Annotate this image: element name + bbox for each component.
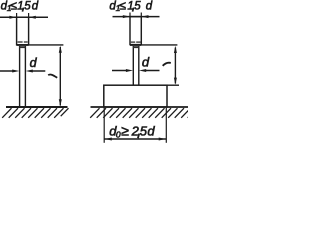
boss block (right) xyxy=(104,85,167,107)
label d0>=2,5d xyxy=(109,123,155,140)
label l (left) xyxy=(48,74,57,77)
hatching (left) xyxy=(2,108,68,118)
shaft top dark band (left) xyxy=(19,46,26,48)
d0 dimension line xyxy=(104,138,166,140)
dimension l (right) xyxy=(174,48,176,84)
shaft top dark band (right) xyxy=(133,46,139,48)
label d1<=1,5d (left) xyxy=(1,0,39,13)
extension tick left (right fig) xyxy=(129,13,131,18)
head inner dashes (left) xyxy=(18,41,23,43)
dimension line d1 (left) xyxy=(0,16,48,18)
svg-text:d: d xyxy=(147,124,155,139)
arrowhead right-pointing at left tick xyxy=(9,16,16,19)
svg-text:d: d xyxy=(30,56,38,70)
svg-text:≤: ≤ xyxy=(10,0,17,13)
stud head (left) xyxy=(17,17,29,45)
hatching (right) xyxy=(90,108,197,118)
d0 extension tick right xyxy=(165,108,167,143)
d0 extension tick left xyxy=(103,108,105,143)
shaft (left) xyxy=(19,46,21,107)
arrowhead left-pointing at right tick xyxy=(29,16,36,19)
svg-text:≥: ≥ xyxy=(121,123,129,139)
svg-text:d: d xyxy=(32,0,39,12)
head bottom thick edge (right) xyxy=(130,44,141,46)
head inner dashes (right) xyxy=(131,41,135,43)
extension tick right (right fig) xyxy=(140,13,142,18)
svg-text:d: d xyxy=(146,0,153,12)
dimension l (left) xyxy=(59,47,61,106)
svg-text:≤: ≤ xyxy=(119,0,126,13)
dimension line d1 (right) xyxy=(113,16,160,18)
dimension d (left) xyxy=(0,70,14,72)
dimension d (right) xyxy=(112,70,127,72)
label d1<=1,5d (right) xyxy=(109,0,152,13)
extension tick left xyxy=(16,13,18,18)
head bottom thick edge (left) xyxy=(17,44,29,46)
extension line for l (left) xyxy=(29,44,64,46)
ground line (right) xyxy=(91,106,189,108)
extension tick right xyxy=(28,13,30,18)
ground line (left) xyxy=(6,106,68,108)
extension line for l (right) xyxy=(141,44,177,46)
stud head (right) xyxy=(130,17,141,45)
svg-text:0: 0 xyxy=(116,130,121,140)
shaft (right) xyxy=(132,46,134,85)
svg-text:d: d xyxy=(142,55,150,70)
svg-text:5: 5 xyxy=(134,0,141,12)
svg-text:5: 5 xyxy=(24,0,31,12)
boss top extension to l arrow xyxy=(167,84,179,86)
label l (right) xyxy=(163,63,171,66)
